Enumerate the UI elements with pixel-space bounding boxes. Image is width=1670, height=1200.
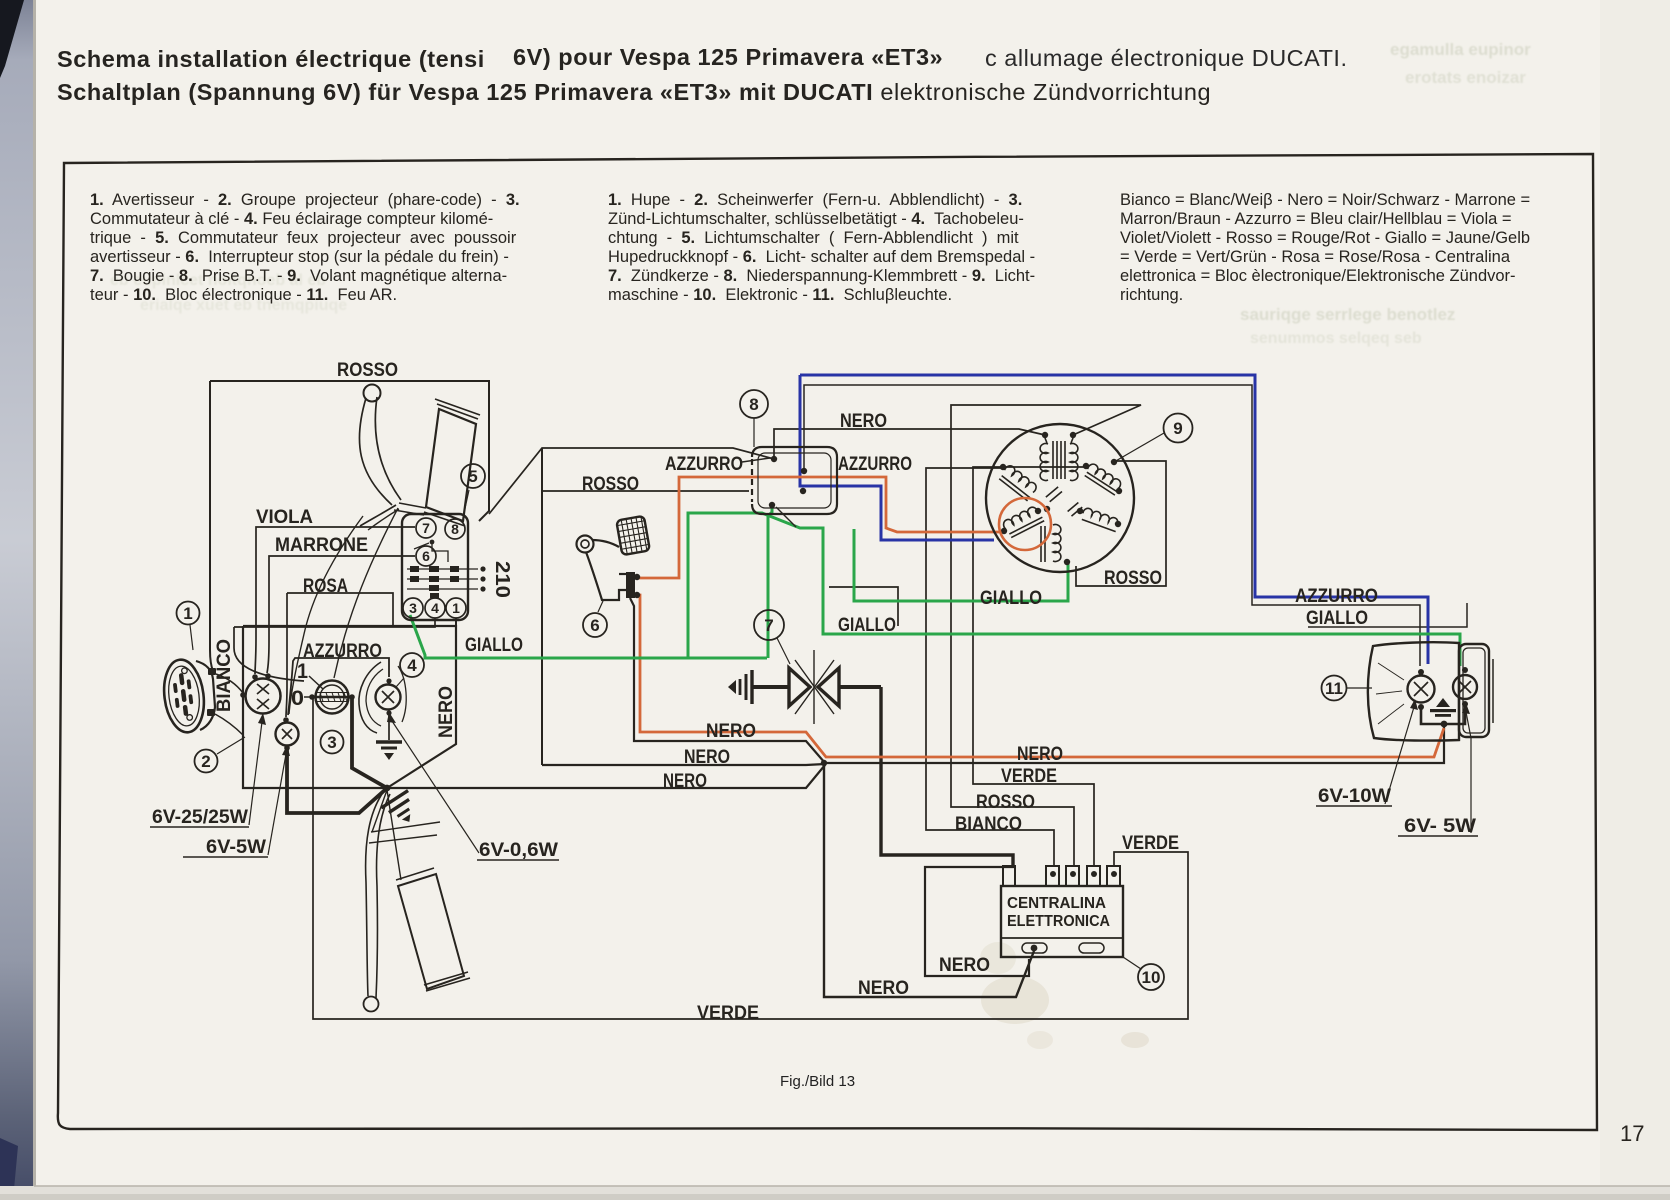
svg-text:7: 7 [422,520,430,536]
wire NERO bundle to tail light [825,725,1444,763]
svg-text:6V-10W: 6V-10W [1318,786,1391,807]
pilot bulb [276,723,299,746]
svg-text:1: 1 [183,604,192,623]
svg-text:6V- 5W: 6V- 5W [1404,816,1476,837]
magneto lighting coil bottom [1041,525,1061,563]
svg-text:3: 3 [409,600,417,616]
item 3 key switch [321,731,344,754]
wire frame of GIALLO label at tail light [1308,603,1467,627]
wire from switch terminal 8 to low-tension block (junction x=542) [489,448,774,514]
wire ROSA vertical to pilot bulb [286,593,287,717]
svg-text:GIALLO: GIALLO [465,635,523,656]
svg-text:AZZURRO: AZZURRO [665,454,743,475]
svg-text:Fig./Bild 13: Fig./Bild 13 [780,1073,855,1090]
ground at frame node [381,791,417,822]
tail light lens [1459,644,1489,737]
wire loop around NERO label at electronic block [925,867,1029,976]
svg-text:VERDE: VERDE [697,1003,759,1024]
svg-text:10: 10 [1142,968,1161,987]
item 10 electronic block [1138,964,1164,990]
brake pedal (6) pad [616,516,650,555]
electronic block (10) CENTRALINA [1001,886,1123,957]
pin 4 [425,598,445,618]
svg-text:MARRONE: MARRONE [275,535,368,556]
wire AZZURRO pilot to speedo lamp [288,658,389,715]
wire ROSA from switch pin4 down to pilot lamp [234,618,435,627]
wire AZZURRO (blue) from low-tension block to magneto [800,375,994,540]
leader lines for value labels [249,707,1471,855]
horn rear shell [196,661,215,730]
wire speedo lamp to ground [388,713,390,740]
item 9 magneto [1164,414,1193,443]
svg-text:AZZURRO: AZZURRO [1295,586,1378,607]
ground tail light [1436,698,1450,707]
wire GIALLO (green) from switch pin3 to tail lamp [410,513,1460,666]
headlamp main bulb (bilux) [246,679,281,714]
wire NERO long bottom run from node [387,765,825,788]
spark plug (7) symbol [752,685,789,689]
wire ROSSO loop from handlebar switch (top-left rectangle) [210,381,489,521]
wire label-run under ROSSO label [542,490,749,492]
svg-text:8: 8 [451,521,459,537]
rear brake lever assembly (bottom) [366,791,384,996]
page corner black wedge top-left [0,0,24,78]
svg-text:6V-0,6W: 6V-0,6W [479,840,558,861]
magneto lighting coil lower-left (feeds lights) [1002,505,1044,538]
colored wires [410,375,1460,757]
svg-text:NERO: NERO [858,978,909,999]
item 1 horn [177,602,200,625]
svg-text:BIANCO: BIANCO [214,639,235,712]
svg-text:AZZURRO: AZZURRO [303,641,382,662]
item 7 spark plug [754,610,784,640]
svg-text:6: 6 [590,616,599,635]
handlebar switch unit (5) connector block [402,514,468,620]
svg-text:GIALLO: GIALLO [838,615,896,636]
wire horn lower stud [215,714,243,735]
circled item numbers [177,390,1373,990]
svg-text:0: 0 [291,687,304,710]
wire VIOLA from switch pin7 to headlamp [255,527,415,674]
underlines of value labels [150,806,1478,860]
pin 3 [403,598,423,618]
svg-text:4: 4 [431,600,439,616]
pin 6 [416,546,436,566]
wire NERO from stop-switch body [630,598,825,763]
legend text columns [90,190,520,210]
svg-text:VERDE: VERDE [1122,833,1179,854]
svg-text:NERO: NERO [436,686,457,738]
wire ROSSO left leg down to horn [210,381,213,671]
pin 6 link detail [430,540,435,545]
book binding band left [0,0,34,1200]
clutch lever (top) [364,385,381,402]
svg-text:GIALLO: GIALLO [980,588,1042,609]
svg-text:VERDE: VERDE [1001,766,1057,787]
svg-text:ROSA: ROSA [303,576,348,597]
tail light (11) housing [1368,642,1459,740]
wire VERDE long return to key switch [313,699,1188,1019]
item 2 headlamp [195,750,218,773]
svg-text:BIANCO: BIANCO [955,814,1022,835]
wire from harness to key switch [234,627,304,681]
wire NERO pilot-lamp return (thick) [287,749,386,813]
wire GIALLO (green) from magneto lighting coil [854,529,1068,601]
wire NERO from low-tension block to magneto points [774,429,1045,459]
magneto coil upper-left [998,464,1039,501]
wire tail bulbs common [1421,704,1465,724]
svg-text:ROSSO: ROSSO [337,360,398,381]
svg-text:VIOLA: VIOLA [256,507,313,528]
wire frame of GIALLO label at magneto [829,587,898,626]
speedometer housing crescent [359,662,381,733]
low tension terminal block (8) [752,447,837,514]
item 11 tail light [1322,676,1347,701]
headlamp shell pentagon [243,626,456,788]
bottom page edge [0,1186,1670,1200]
wire thin pair with azzurro to tail lamp [804,385,1420,666]
tail lamp bulb 6V-5W [1453,675,1477,699]
svg-text:8: 8 [749,395,758,414]
svg-text:1: 1 [297,660,308,683]
svg-text:NERO: NERO [840,411,887,432]
wire GIALLO (green) block8 drop [768,507,772,658]
wire ROSSO (orange) stop switch to magneto lighting coil [637,477,1001,578]
wire control cable curve A [289,516,363,714]
pedal arm [592,540,619,547]
paper stains [980,942,1149,1049]
svg-text:CENTRALINA: CENTRALINA [1007,895,1106,912]
svg-text:4: 4 [407,656,417,675]
svg-text:3: 3 [327,733,336,752]
wire NERO key-switch to ground node (thick) [352,697,387,788]
wire NERO bundle down to electronic block [824,764,1034,997]
wire AZZURRO (blue) main run to tail light [800,375,1428,664]
wire horn stud to headlamp feed [216,674,243,693]
wire VERDE from magneto to electronic block [973,467,1094,866]
pin 8 [445,519,465,539]
svg-text:ELETTRONICA: ELETTRONICA [1007,913,1110,930]
ghost bleed-through text [1390,40,1531,60]
key position indicator line [309,676,323,689]
wire spark plug to electronic block (thick) [881,687,1013,866]
key switch (commutateur a cle) [316,681,349,714]
tail stop bulb 6V-10W [1408,676,1435,703]
svg-text:GIALLO: GIALLO [1306,608,1368,629]
bottom-left dark corner [0,1138,18,1200]
item 6 stop switch [583,613,607,637]
magneto ignition coil (top) [1040,438,1078,481]
svg-text:6V-5W: 6V-5W [206,837,266,858]
horn (avertisseur) body [160,657,208,734]
magneto coil lower-right [1081,507,1120,532]
item 8 BT terminal [740,390,768,418]
switch contact bars [410,566,459,598]
svg-text:9: 9 [1173,419,1182,438]
legend/diagram outer frame [58,154,1597,1130]
svg-text:NERO: NERO [684,747,730,768]
svg-text:AZZURRO: AZZURRO [838,454,912,475]
svg-text:2: 2 [201,752,210,771]
wire ROSSO from magneto points to electronic block [951,405,1141,866]
magneto contact points symbols [1046,487,1062,502]
stop light switch body [626,572,635,598]
svg-text:NERO: NERO [706,721,756,742]
horn terminal studs [207,668,216,716]
svg-text:1: 1 [452,600,460,616]
page title [57,46,485,73]
twist grip (top) [426,409,476,521]
item 5 light switch [461,464,485,488]
svg-text:NERO: NERO [939,955,990,976]
wire control cable curve B [334,508,398,678]
speedometer lamp [376,685,401,710]
svg-text:17: 17 [1620,1121,1644,1146]
wire ROSA label-run [287,593,393,627]
pin 7 [416,518,436,538]
svg-text:6: 6 [422,548,430,564]
wire ROSSO (orange) stop switch to tail stop lamp [636,595,1444,757]
ground speedometer lamp [376,742,402,748]
wire frame of ROSSO label at magneto [1076,461,1166,586]
svg-text:NERO: NERO [1017,744,1063,765]
wire MARRONE from switch pin6 to headlamp [267,556,415,673]
wire BIANCO from magneto to electronic block [926,468,1054,866]
svg-text:ROSSO: ROSSO [1104,568,1162,589]
svg-text:5: 5 [468,467,477,486]
svg-text:11: 11 [1325,679,1343,698]
pedal pivot [577,536,594,553]
wire NERO-B harness run [542,764,825,765]
wire switch pin1 stub [455,618,457,628]
svg-text:ROSSO: ROSSO [582,474,639,495]
flywheel magneto (9) outer circle [986,424,1134,572]
pin 1 [446,598,466,618]
orange ring around lighting coil [999,498,1051,550]
node headlamp feed junction [240,692,246,698]
item 4 speedo lamp [400,653,424,677]
svg-text:6V-25/25W: 6V-25/25W [152,807,248,828]
svg-text:NERO: NERO [663,771,707,792]
svg-text:210: 210 [491,561,513,598]
svg-text:ROSSO: ROSSO [976,792,1035,813]
connector pin numbers [409,520,460,616]
magneto coil upper-right [1083,462,1123,495]
svg-text:7: 7 [764,616,773,635]
wire NERO-B vertical from junction down to harness [541,448,543,765]
